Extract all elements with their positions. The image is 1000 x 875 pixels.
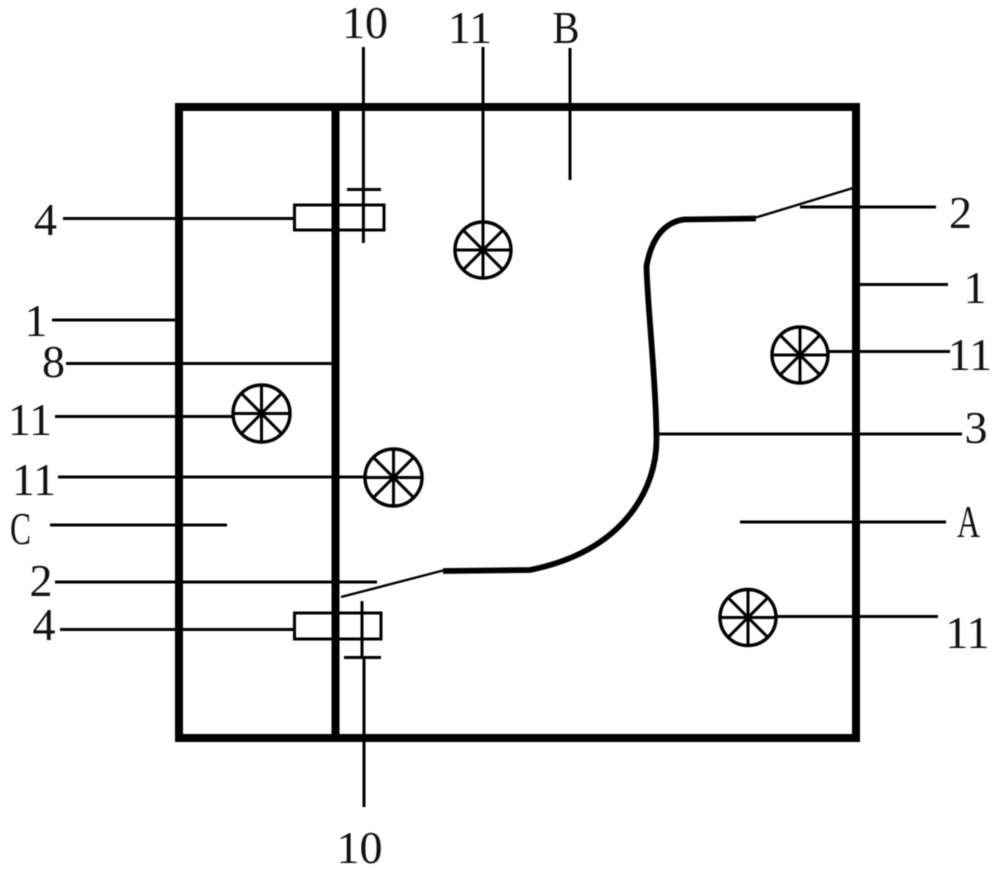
clamp 4 top nut tick <box>347 188 381 191</box>
svg-text:A: A <box>957 496 980 547</box>
curve 3 thin tangent bottom (to 2) <box>341 571 443 598</box>
screw 10 bottom upper shank <box>361 601 364 657</box>
screw 10 top (bolt shank + leader to label 10) <box>362 47 365 243</box>
clamp 4 top rectangle <box>295 205 385 230</box>
leader 11 left lower <box>58 476 366 479</box>
leader 8 <box>66 362 337 365</box>
sun symbol 11 middle <box>365 449 422 506</box>
sun symbol 11 top-middle <box>455 222 511 278</box>
svg-text:2: 2 <box>949 187 972 238</box>
svg-text:11: 11 <box>8 394 52 445</box>
leader A <box>740 521 946 524</box>
curve 3 thin tangent top (to 2) <box>756 188 853 218</box>
sun symbol 11 right <box>772 327 828 383</box>
curve 3 (S-shaped cavity profile) <box>443 219 756 572</box>
screw 10 bottom leader to label 10 <box>363 658 366 807</box>
leader 11 top vertical <box>482 47 485 222</box>
svg-text:4: 4 <box>34 194 57 245</box>
leader 4 bottom <box>60 628 294 631</box>
svg-text:3: 3 <box>965 402 988 453</box>
leader 2 left <box>55 581 377 584</box>
leader C <box>50 524 227 527</box>
leader 1 left <box>52 319 179 322</box>
svg-text:10: 10 <box>342 0 388 48</box>
leader 4 top <box>63 217 294 220</box>
leader 1 right <box>853 283 948 286</box>
clamp 4 bottom nut tick <box>344 656 381 659</box>
leader 11 right upper <box>828 350 950 353</box>
leader 3 <box>658 433 962 436</box>
leader 2 right <box>800 206 936 209</box>
svg-text:4: 4 <box>33 599 56 650</box>
leader 11 left upper <box>55 415 234 418</box>
svg-text:1: 1 <box>964 262 987 313</box>
sun symbol 11 bottom-right <box>720 590 776 646</box>
outer frame (mold body) <box>179 107 856 738</box>
svg-text:B: B <box>553 2 580 53</box>
divider line 8 (insert parting plate) <box>332 104 340 741</box>
clamp 4 bottom rectangle <box>295 613 382 639</box>
sun symbol 11 left <box>233 385 290 442</box>
leader 11 right lower <box>776 615 938 618</box>
svg-text:11: 11 <box>12 454 56 505</box>
svg-text:11: 11 <box>945 607 989 658</box>
svg-text:8: 8 <box>42 336 65 387</box>
leader B vertical <box>569 48 572 180</box>
svg-text:11: 11 <box>448 2 492 53</box>
svg-text:11: 11 <box>948 329 992 380</box>
svg-text:10: 10 <box>337 822 383 873</box>
svg-text:C: C <box>10 503 31 554</box>
